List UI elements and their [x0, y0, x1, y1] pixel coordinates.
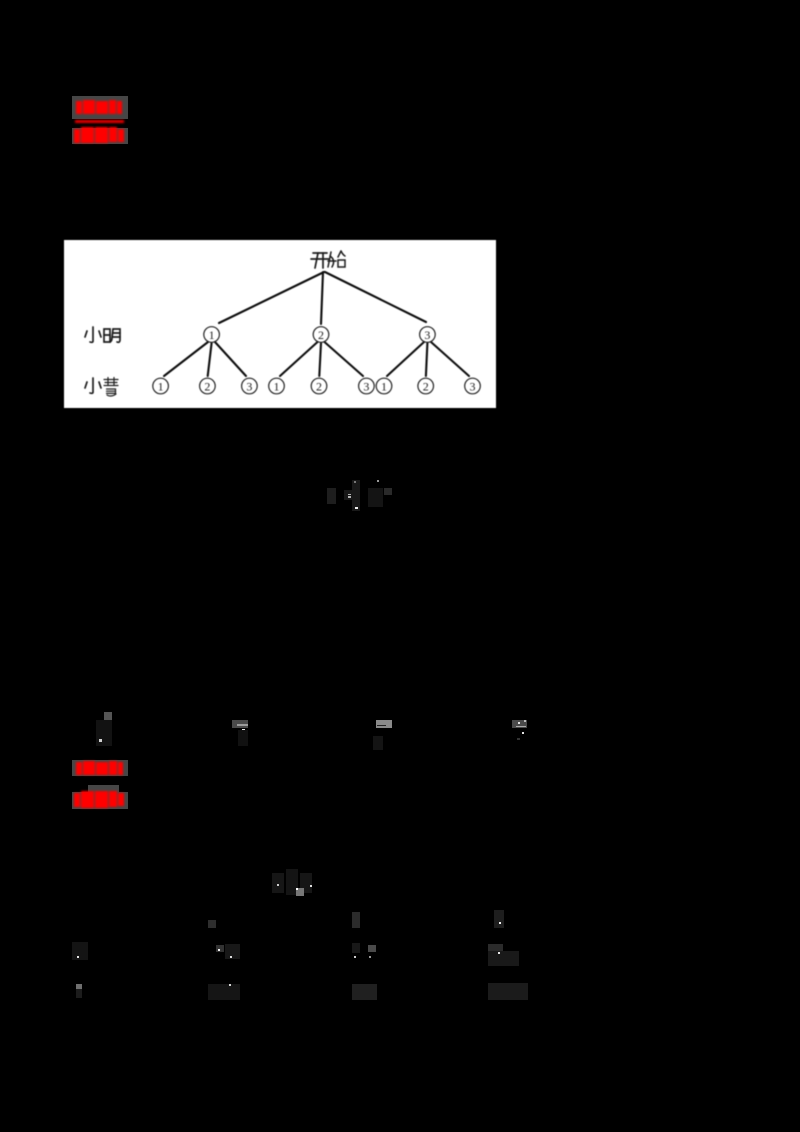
faint formula remnants around y=490 [327, 488, 336, 504]
node circles row 1 [153, 327, 481, 394]
tree edges [164, 272, 469, 376]
highlighted answer label box 3 (【答案】) [72, 760, 128, 776]
white diagram panel with probability tree [64, 240, 496, 408]
svg-text:2: 2 [204, 380, 210, 394]
column 3 [352, 912, 360, 928]
小 glyph (xiaohui row) [85, 378, 101, 393]
svg-text:3: 3 [470, 380, 476, 394]
options row faint marks [96, 704, 116, 746]
faint P(A) formula remnants [272, 869, 314, 897]
小 glyph (xiaoming row) [85, 327, 101, 342]
svg-text:1: 1 [158, 380, 164, 394]
svg-text:2: 2 [318, 328, 324, 342]
svg-text:3: 3 [246, 380, 252, 394]
svg-text:1: 1 [209, 328, 215, 342]
慧 glyph [104, 378, 118, 397]
highlighted answer label box 1 (【答案】) [72, 96, 128, 119]
column 4 [494, 910, 504, 928]
开 glyph [311, 253, 329, 268]
stray red strip above box 2 [75, 120, 124, 123]
始 glyph [328, 251, 345, 267]
svg-text:1: 1 [381, 380, 387, 394]
svg-text:2: 2 [423, 380, 429, 394]
svg-text:1: 1 [274, 380, 280, 394]
svg-text:3: 3 [363, 380, 369, 394]
highlighted answer label box 4 (【解析】) [72, 792, 128, 809]
svg-text:3: 3 [424, 328, 430, 342]
column 2 [208, 920, 216, 928]
明 glyph [104, 329, 120, 342]
column 1 [72, 942, 88, 960]
small gray tab above box 4 [88, 785, 119, 792]
svg-text:2: 2 [316, 380, 322, 394]
highlighted answer label box 2 (【解析】) [72, 128, 128, 144]
